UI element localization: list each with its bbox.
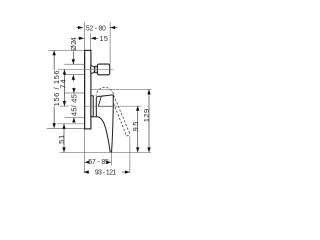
node 45 top reference line bbox=[64, 92, 84, 94]
dim 93-121 tails bbox=[84, 171, 90, 173]
svg-text:57 - 85: 57 - 85 bbox=[88, 159, 109, 166]
svg-text:95: 95 bbox=[131, 122, 140, 132]
knob top extension line bbox=[64, 63, 84, 65]
white wipe behind handle neck bbox=[93, 96, 99, 117]
knob body bbox=[97, 64, 109, 75]
dim d24 line bbox=[72, 52, 74, 65]
knob bottom extension line bbox=[64, 74, 84, 76]
handle axis line bbox=[84, 105, 141, 107]
knob axis line bbox=[58, 68, 114, 70]
lever handle (side view) bbox=[96, 95, 113, 152]
dimension texts bbox=[52, 26, 151, 177]
arrow 15 left bbox=[79, 37, 84, 40]
handle head bottom edge bbox=[98, 105, 113, 107]
dashed open handle line A bbox=[114, 103, 127, 135]
dim 15 line bbox=[78, 37, 85, 39]
knob stem bbox=[95, 66, 98, 72]
arrow 45 bottom bbox=[72, 117, 75, 122]
open handle tip extension line bbox=[129, 136, 131, 172]
arrowheads bbox=[52, 26, 150, 174]
handle tip extension line bbox=[110, 152, 112, 165]
node 51 top reference line bbox=[57, 123, 84, 125]
svg-text:51: 51 bbox=[57, 135, 66, 144]
handle hub bottom stub bbox=[93, 116, 96, 118]
svg-text:93 - 121: 93 - 121 bbox=[95, 170, 117, 177]
dashed open handle tip arc bbox=[127, 133, 130, 136]
dim 95 line bbox=[137, 106, 139, 153]
knob face extension line bbox=[109, 22, 111, 64]
arrow 52-80 right bbox=[110, 26, 115, 29]
dim 74 line bbox=[63, 70, 65, 107]
handle head left edge bbox=[98, 96, 101, 106]
svg-text:15: 15 bbox=[99, 34, 108, 43]
arrow 93-121 right bbox=[125, 170, 130, 173]
plate bottom extension line bbox=[47, 128, 85, 130]
knob neck semicircle bbox=[91, 66, 95, 74]
arrow 74 bottom bbox=[63, 101, 66, 106]
dim 129 line bbox=[148, 89, 150, 152]
baseline bbox=[60, 151, 151, 153]
dim 51 line bbox=[63, 124, 65, 152]
dim 45 line bbox=[73, 88, 75, 93]
arrow d24 bottom bbox=[72, 75, 75, 80]
node 45 bottom reference line bbox=[64, 116, 84, 118]
arrow d24 top bbox=[72, 59, 75, 64]
arrow 156 top bbox=[52, 50, 55, 55]
svg-text:129: 129 bbox=[142, 109, 151, 122]
arrow 57-85 right bbox=[106, 161, 111, 164]
arrow 129 bottom bbox=[147, 147, 150, 152]
svg-text:Ø 24: Ø 24 bbox=[69, 37, 78, 51]
svg-text:52 - 80: 52 - 80 bbox=[86, 26, 106, 33]
arrow 95 top bbox=[136, 106, 139, 111]
dashed concealed valve circle bbox=[96, 87, 114, 105]
svg-text:74: 74 bbox=[59, 79, 68, 89]
arrow 57-85 left bbox=[85, 161, 90, 164]
arrow 129 top bbox=[147, 89, 150, 94]
plate top extension line bbox=[48, 49, 84, 51]
arrow 45 top bbox=[72, 88, 75, 93]
escutcheon plate (edge view) bbox=[85, 50, 91, 128]
handle axis left stub bbox=[60, 105, 69, 107]
dim 52-80 line bbox=[76, 27, 83, 29]
arrow 93-121 left bbox=[84, 170, 89, 173]
reference line 129 top bbox=[91, 88, 151, 90]
arrow 51 bottom bbox=[62, 147, 65, 152]
dim 156 line bbox=[53, 50, 55, 70]
handle hub bbox=[91, 96, 93, 117]
dashed open handle line B bbox=[114, 95, 130, 133]
arrow 156 bottom bbox=[52, 123, 55, 128]
arrow 95 bottom bbox=[136, 147, 139, 152]
dimension lines bbox=[54, 28, 149, 173]
arrow 15 right bbox=[91, 37, 96, 40]
arrow 74 top bbox=[63, 70, 66, 75]
arrow 51 top bbox=[62, 124, 65, 129]
svg-text:45/ 45: 45/ 45 bbox=[70, 94, 79, 116]
arrow 52-80 left bbox=[78, 26, 83, 29]
extension/axis lines bbox=[47, 22, 151, 173]
wall line bbox=[83, 22, 85, 173]
plate front extension line top bbox=[89, 33, 91, 50]
